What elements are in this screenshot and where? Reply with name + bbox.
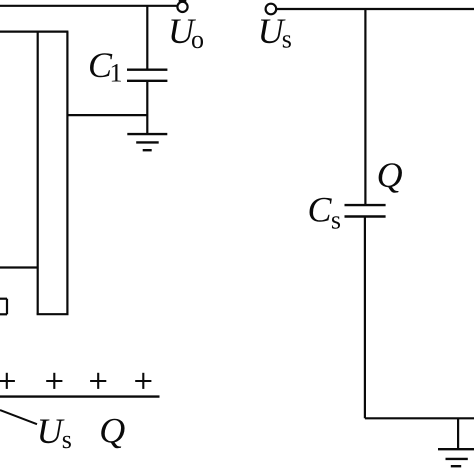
svg-text:Q: Q [377, 155, 403, 195]
wire: top-right source bus [277, 8, 474, 10]
wire: top-left output bus [0, 5, 177, 7]
label C_s [308, 189, 342, 234]
wire: ground stem [457, 418, 459, 449]
wire: bottom return [365, 417, 474, 419]
label Q (right) [377, 155, 403, 195]
svg-text:s: s [62, 425, 72, 454]
label U_o [168, 11, 204, 54]
wire: Cs bottom lead [364, 217, 366, 419]
svg-text:C: C [308, 189, 333, 229]
electrode fragment (small square, cropped) [0, 299, 7, 315]
svg-text:Q: Q [99, 411, 125, 451]
svg-text:1: 1 [110, 59, 123, 88]
terminal Us [266, 4, 277, 15]
label C_1 [88, 45, 123, 88]
charge row: plus signs [0, 373, 151, 389]
svg-text:U: U [37, 411, 65, 451]
electrode surface line [0, 395, 160, 397]
label U_s (bottom left) [37, 411, 72, 454]
svg-text:s: s [331, 205, 341, 234]
electrode plate (tall rectangle) [37, 32, 69, 315]
terminal Uo [177, 2, 187, 12]
wire: C1 bottom lead [146, 81, 148, 134]
svg-text:s: s [282, 24, 292, 53]
wire: Cs top lead [364, 9, 366, 205]
cropped stub above terminal Uo [179, 0, 187, 2]
capacitor C1 [127, 70, 167, 81]
svg-text:o: o [191, 25, 204, 54]
label U_s (top right) [258, 11, 292, 54]
capacitor Cs [345, 205, 386, 216]
wire: left stub [0, 266, 38, 268]
wire: upper electrode feed [0, 31, 68, 33]
label Q (bottom left) [99, 411, 125, 451]
ground symbol G1 [127, 134, 167, 150]
leader line to U_s [0, 410, 37, 424]
wire: electrode to C1 ground junction [67, 114, 147, 116]
wire: C1 top lead [146, 6, 148, 70]
ground symbol G2 (cropped at right) [438, 449, 474, 466]
